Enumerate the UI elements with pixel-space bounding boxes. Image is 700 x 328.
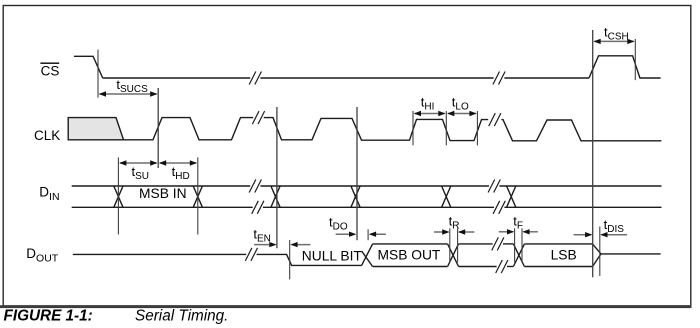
svg-text:tHI: tHI: [421, 95, 435, 113]
marker at CLK falling edge (tDO reference): [356, 107, 358, 240]
DIN bus bottom-rail break mark 2: [493, 201, 505, 214]
timing label tLO: [452, 95, 469, 113]
timing label tCSH: [604, 24, 629, 42]
NULL BIT value label: [302, 249, 363, 264]
marker tHD end (MSB IN end): [197, 157, 199, 234]
DOUT crossover node G (null bit to MSB OUT): [362, 244, 373, 267]
DIN bus top rail segment 1: [72, 185, 251, 187]
CS break mark 2: [493, 72, 505, 85]
dimension arrow tEN left: [254, 242, 277, 247]
DIN bus bottom rail segment 2: [263, 206, 494, 208]
dimension arrow tR left: [434, 229, 449, 234]
marker tSU start (MSB IN valid): [117, 157, 119, 234]
CS break mark 1: [249, 72, 261, 85]
DOUT bus bottom rail segment: [459, 266, 497, 268]
dimension arrow tDIS left: [574, 232, 593, 237]
DOUT crossover node H (rise, tR): [448, 244, 459, 267]
marker tF end: [521, 228, 523, 262]
timing label tEN: [253, 227, 271, 245]
dimension arrow tF left: [499, 229, 514, 234]
signal label DOUT: [26, 246, 59, 265]
marker tR start: [449, 228, 451, 262]
CLK break mark 1: [252, 111, 264, 124]
signal label CLK: [34, 128, 60, 143]
DIN bus crossover node C: [271, 186, 280, 207]
timing label tDIS: [604, 217, 625, 235]
CS waveform rising edge and end pulse: [589, 56, 661, 78]
svg-text:Serial Timing.: Serial Timing.: [135, 307, 228, 324]
marker tF start: [514, 228, 516, 262]
svg-text:tEN: tEN: [253, 227, 271, 245]
dimension arrow tHI: [414, 111, 446, 116]
CLK waveform pulses (middle section): [264, 118, 488, 141]
DIN bus crossover node E: [442, 186, 451, 207]
marker at DOUT enable (null bit start): [289, 240, 291, 279]
DIN bus top rail segment 2: [260, 185, 489, 187]
marker tCSH end: [634, 39, 636, 80]
marker at CLK falling edge (tEN reference): [276, 107, 278, 248]
marker at first CLK rising edge: [157, 88, 159, 168]
svg-text:tSUCS: tSUCS: [116, 77, 148, 95]
marker at MSB OUT start (tDO end): [367, 229, 369, 240]
DOUT break mark 1: [245, 248, 257, 261]
dimension arrow tDO left: [336, 232, 357, 237]
svg-text:FIGURE 1-1:: FIGURE 1-1:: [4, 307, 93, 324]
dimension arrow tHD: [159, 160, 197, 165]
svg-text:LSB: LSB: [551, 248, 577, 263]
svg-text:tCSH: tCSH: [604, 24, 629, 42]
MSB IN value label: [139, 186, 187, 201]
DOUT bus bottom-rail break mark 2: [496, 260, 508, 273]
timing label tF: [513, 214, 523, 232]
DIN bus crossover node D: [351, 186, 360, 207]
DOUT LSB converge to hi-Z point: [593, 244, 602, 267]
CS waveform low segment 3: [504, 77, 589, 79]
DIN bus crossover node F: [507, 186, 516, 207]
dimension arrow tSUCS: [99, 91, 158, 96]
DOUT MSB OUT bus top rail: [373, 243, 448, 245]
marker at CS falling edge: [97, 50, 99, 98]
DOUT MSB OUT bus bottom rail: [373, 266, 448, 268]
CLK waveform pulses (right section): [501, 120, 661, 141]
dimension arrow tEN right: [290, 242, 310, 247]
svg-text:DOUT: DOUT: [26, 246, 59, 265]
figure caption number: [4, 307, 93, 324]
svg-text:NULL BIT: NULL BIT: [302, 249, 363, 264]
dimension arrow tLO: [447, 111, 477, 116]
CS waveform low segment 1: [103, 77, 251, 79]
signal label CS (active-low, overbar): [40, 63, 59, 78]
marker tHI end / tLO start: [445, 111, 447, 145]
DOUT LSB bus bottom rail: [524, 266, 592, 268]
marker tHI start: [412, 111, 414, 145]
svg-text:tSU: tSU: [132, 164, 150, 182]
svg-text:tDO: tDO: [329, 214, 348, 232]
svg-text:CLK: CLK: [34, 128, 60, 143]
DOUT crossover node I (fall, tF): [513, 244, 524, 267]
DIN bus crossover node A (MSB IN start): [114, 186, 123, 207]
DIN bus top-rail break mark 1: [249, 180, 261, 193]
DIN bus bottom rail segment 3: [504, 206, 661, 208]
timing label tDO: [329, 214, 348, 232]
svg-text:tDIS: tDIS: [604, 217, 625, 235]
CS waveform low segment 2: [260, 77, 493, 79]
svg-text:tHD: tHD: [172, 164, 190, 182]
signal label DIN: [39, 184, 59, 203]
dimension arrow tF right: [522, 229, 537, 234]
DOUT hi-Z line segment 3: [601, 253, 661, 255]
marker tLO end: [476, 111, 478, 145]
svg-text:CS: CS: [41, 63, 60, 78]
dimension arrow tCSH: [594, 39, 635, 44]
DOUT bus top rail segment: [459, 243, 493, 245]
svg-text:DIN: DIN: [39, 184, 59, 203]
DOUT hi-Z line segment 2 and fall to null bit: [257, 254, 362, 265]
DOUT hi-Z line segment 1: [73, 253, 246, 255]
marker tR end: [457, 228, 459, 262]
dimension arrow tR right: [458, 229, 474, 234]
svg-text:MSB IN: MSB IN: [139, 186, 187, 201]
marker tDIS end (DOUT disabled): [599, 227, 601, 276]
MSB OUT value label: [378, 248, 441, 263]
timing label tSU: [132, 164, 150, 182]
timing label tHD: [172, 164, 190, 182]
DIN bus bottom-rail break mark 1: [252, 201, 264, 214]
timing label tHI: [421, 95, 435, 113]
dimension arrow tDO right: [369, 232, 386, 237]
timing label tSUCS: [116, 77, 148, 95]
CS waveform high segment and falling edge: [74, 56, 103, 78]
timing label tR: [449, 214, 460, 232]
figure caption title: [135, 307, 228, 324]
dimension arrow tDIS right: [600, 232, 627, 237]
LSB value label: [551, 248, 577, 263]
CLK shaded first pulse: [68, 118, 123, 140]
marker at CS rising edge (tCSH / tDIS reference): [592, 30, 594, 277]
svg-text:MSB OUT: MSB OUT: [378, 248, 441, 263]
DIN bus top-rail break mark 2: [488, 180, 500, 193]
dimension arrow tSU: [119, 160, 157, 165]
CLK waveform pulses (first section): [124, 118, 254, 140]
svg-text:tLO: tLO: [452, 95, 469, 113]
CLK break mark 2: [489, 113, 501, 126]
DOUT bus bottom rail segment b: [507, 266, 513, 268]
DOUT bus top-rail break mark 2: [492, 237, 504, 250]
DOUT LSB bus top rail: [524, 243, 592, 245]
DIN bus top rail segment 3: [499, 185, 661, 187]
DIN bus crossover node B (MSB IN end): [193, 186, 202, 207]
DIN bus bottom rail segment 1: [72, 206, 253, 208]
DOUT bus top rail segment b: [503, 243, 513, 245]
